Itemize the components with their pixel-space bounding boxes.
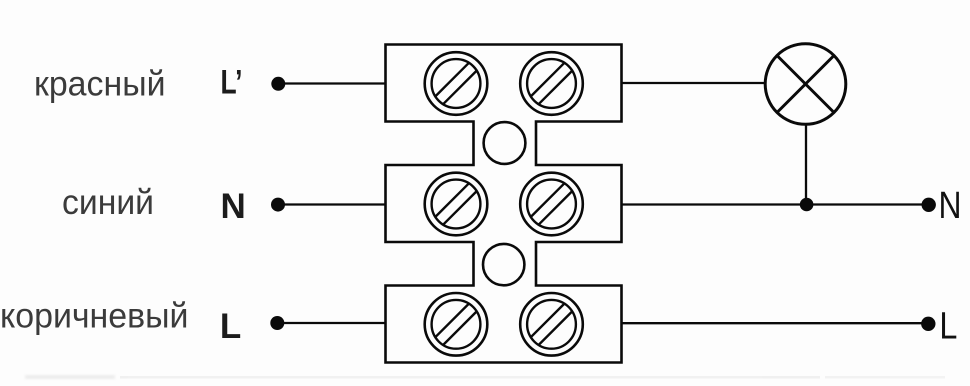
wire N right segment [622,203,929,205]
svg-text:N: N [221,187,246,226]
svg-text:N: N [939,185,962,227]
terminal dot N left [271,198,285,212]
terminal dot N right [922,198,936,212]
screw terminal 5 (row L, left) [425,293,488,356]
svg-text:синий: синий [62,183,154,222]
terminal dot L right [921,317,935,331]
svg-text:красный: красный [34,64,166,103]
wire L' left segment [278,82,386,84]
screw terminal 3 (row N, left) [425,173,488,236]
screw terminal 2 (row L', right) [520,52,583,115]
svg-text:коричневый: коричневый [0,297,189,336]
wire from lamp bottom to N junction [805,124,807,204]
mounting hole lower [483,244,524,285]
faint cropped content edge at page bottom [25,375,945,379]
junction node on N wire [800,198,814,212]
screw terminal 1 (row L', left) [425,52,488,115]
wire L left segment [277,322,386,324]
wire N left segment [278,203,386,205]
wire L' right segment to lamp [622,82,766,84]
terminal dot L' [271,77,285,91]
mounting hole upper [484,122,526,164]
wire L right segment [622,322,929,324]
screw terminal 6 (row L, right) [520,293,583,356]
lamp EL1 (circle with cross) [765,44,846,125]
terminal dot L left [270,316,284,330]
svg-text:L: L [939,306,957,348]
screw terminal 4 (row N, right) [520,173,583,236]
svg-text:L’: L’ [221,64,243,102]
svg-text:L: L [220,307,241,346]
terminal block body (3-pole strip outline) [386,45,622,363]
